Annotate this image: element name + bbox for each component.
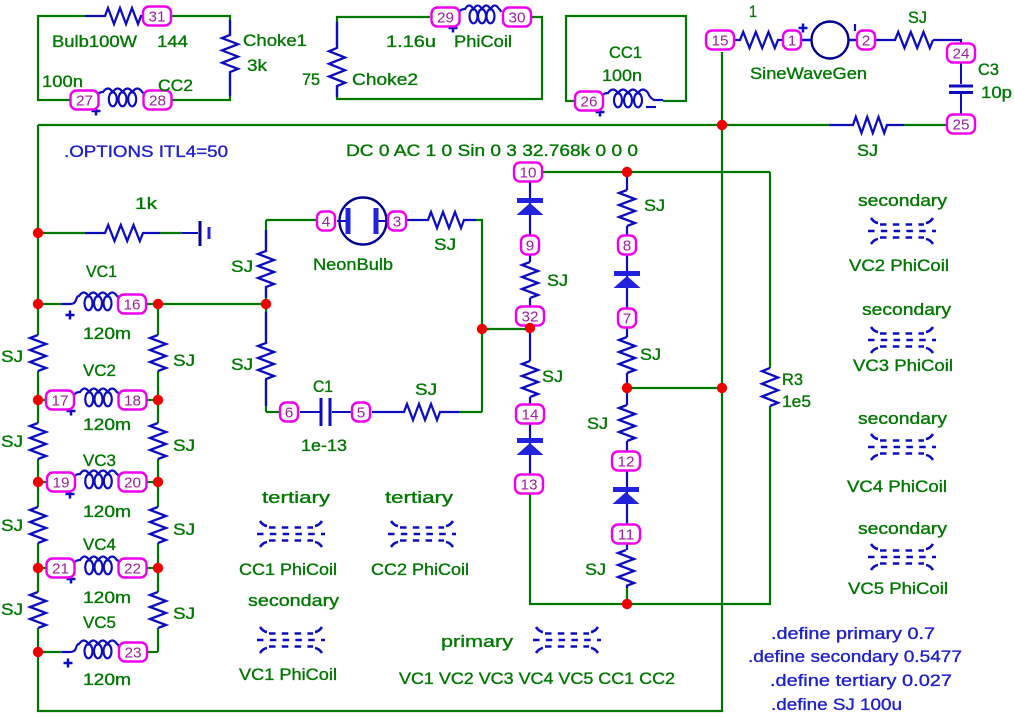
wire loop3 rectangle [566,16,686,101]
svg-text:22: 22 [124,561,141,578]
svg-text:SJ: SJ [1,600,23,619]
junction dot (38,233) [33,228,43,238]
minus sign of CC1 [646,106,656,108]
resistor SJ left rail 1 [29,335,47,371]
node 32 [516,307,544,326]
plus of CC2 [92,107,101,116]
node 25 [947,115,975,134]
wire mid junction to right rail [627,387,722,389]
svg-text:13: 13 [521,477,538,494]
plus mark of SineWaveGen [799,24,808,33]
resistor SJ mid rail 4 [149,592,167,628]
sine source SineWaveGen circle [801,22,857,59]
resistor SJ (node5 bottom) [404,403,440,421]
plus of VC3 [66,490,75,499]
node 22 [119,559,147,578]
resistor SJ left rail 4 [29,592,47,628]
svg-text:26: 26 [581,94,598,111]
svg-text:4: 4 [322,214,331,231]
wire neon loop top-left [266,219,317,221]
capacitor C3 10p [949,62,973,115]
wire node20 stub [146,481,158,483]
wire loop1 top-right and right edge [171,16,230,100]
svg-text:VC3: VC3 [83,451,116,470]
svg-text:100n: 100n [42,72,83,91]
svg-text:1e-13: 1e-13 [301,436,347,455]
svg-text:tertiary: tertiary [385,488,454,507]
junction dot (482,329) [477,324,487,334]
resistor SJ (node3 top) [428,211,464,229]
resistor SJ neon left upper [257,251,275,287]
svg-text:SJ: SJ [231,257,253,276]
svg-text:SJ: SJ [173,436,195,455]
resistor SJ left rail 3 [29,507,47,543]
svg-text:12: 12 [618,454,635,471]
wire node18 stub [146,399,158,401]
node 27 [71,91,99,110]
wire outer loop top edge [38,124,722,126]
svg-text:SJ: SJ [547,271,568,290]
svg-text:3: 3 [393,214,402,231]
resistor SJ mid rail 2 [149,423,167,459]
svg-text:1k: 1k [135,194,158,213]
junction dot (158,482) [153,477,163,487]
svg-text:.define SJ 100u: .define SJ 100u [771,695,902,714]
svg-text:10p: 10p [981,83,1012,102]
junction dot (722,388) [717,383,727,393]
svg-text:1e5: 1e5 [782,392,811,411]
inductor CC1 100n [602,90,663,108]
svg-text:DC 0 AC 1 0 Sin 0 3 32.768k 0: DC 0 AC 1 0 Sin 0 3 32.768k 0 0 0 [346,141,638,160]
svg-text:SJ: SJ [231,355,253,374]
node 31 [143,7,171,26]
svg-text:28: 28 [149,93,166,110]
wire neon loop bottom-left [266,411,280,413]
node 12 [612,452,640,471]
svg-text:120m: 120m [83,502,131,521]
node 2 [857,31,875,50]
svg-text:SJ: SJ [542,367,563,386]
svg-text:VC2 PhiCoil: VC2 PhiCoil [849,256,949,275]
neon bulb NeonBulb [337,198,387,245]
capacitor C1 1e-13 [300,398,351,426]
svg-text:.define secondary 0.5477: .define secondary 0.5477 [748,647,962,666]
coupling K secondary VC2 PhiCoil [868,218,936,244]
junction dot (38,568) [33,563,43,573]
node 6 [280,403,298,422]
node 7 [618,309,636,328]
junction dot (38,400) [33,395,43,405]
plus of VC4 [67,575,76,584]
svg-text:SJ: SJ [173,604,195,623]
wire top bus segment to SJ resistor [722,124,830,126]
wire loop2 rectangle [337,17,542,99]
wire VC5 entry [38,651,62,653]
junction dot (158,568) [153,563,163,573]
svg-text:120m: 120m [83,324,131,343]
resistor SJ (junction-12) [618,405,636,441]
coupling K secondary VC4 PhiCoil [868,434,936,460]
resistor SJ neon left lower [257,343,275,379]
svg-text:PhiCoil: PhiCoil [454,32,512,51]
svg-text:SJ: SJ [587,414,608,433]
coupling K secondary VC5 PhiCoil [868,544,936,570]
plus of VC2 [67,407,76,416]
svg-text:100n: 100n [602,66,642,85]
node 15 [706,31,734,50]
svg-text:17: 17 [52,393,69,410]
resistor SJ (7-junction) [618,337,636,373]
svg-text:NeonBulb: NeonBulb [313,255,393,274]
resistor SJ (11-bottom) [617,550,635,586]
node 9 [521,236,539,255]
resistor SJ (node25 bus) [853,116,887,134]
svg-text:SJ: SJ [1,432,23,451]
svg-text:CC1 PhiCoil: CC1 PhiCoil [239,560,337,579]
svg-text:primary: primary [441,632,514,651]
svg-text:SJ: SJ [173,520,195,539]
svg-text:SJ: SJ [434,235,456,254]
resistor SJ (9-32) [521,262,539,298]
svg-text:2: 2 [862,33,871,50]
wire node23 to mid rail [146,651,158,653]
resistor 1k [105,224,143,242]
node 29 [432,8,460,27]
svg-text:1.16u: 1.16u [386,32,436,51]
wire neon loop top-right corner and right rail [476,220,482,412]
node 18 [119,391,147,410]
coupling K secondary VC3 PhiCoil [868,327,936,353]
wire 1k branch from left rail [38,232,85,234]
node 19 [47,473,75,492]
svg-text:120m: 120m [83,588,131,607]
svg-text:.define primary 0.7: .define primary 0.7 [771,624,935,643]
plus of VC1 [66,311,75,320]
node 13 [515,475,543,494]
svg-text:Bulb100W: Bulb100W [52,32,137,51]
node 30 [503,8,531,27]
junction dot (627,388) [622,383,632,393]
wire bottom collector bus [530,172,770,604]
junction dot (627,604) [622,599,632,609]
svg-text:SJ: SJ [908,8,927,27]
resistor SJ (top mid chain) [618,190,636,226]
node 8 [618,236,636,255]
wire node17 stub [38,399,47,401]
resistor SJ mid rail 1 [149,335,167,371]
wire node19 stub [38,481,47,483]
svg-text:CC1: CC1 [609,43,642,62]
svg-text:7: 7 [623,311,632,328]
diode node14-node13 [517,438,544,455]
svg-text:VC4: VC4 [83,535,116,554]
svg-text:CC2 PhiCoil: CC2 PhiCoil [371,560,469,579]
diode node8-node7 [614,271,641,288]
svg-text:1: 1 [749,2,757,21]
plus of PhiCoil [449,24,458,33]
resistor SJ (node2-node24) [895,31,933,49]
junction dot (158,400) [153,395,163,405]
diode node12-node11 [613,487,640,504]
svg-text:VC4 PhiCoil: VC4 PhiCoil [847,477,947,496]
resistor Choke2 75 [328,48,346,86]
svg-text:15: 15 [712,33,729,50]
svg-text:19: 19 [53,475,70,492]
node 4 [317,212,335,231]
svg-text:11: 11 [618,527,635,544]
svg-text:secondary: secondary [858,409,948,428]
resistor R3 1e5 [761,368,779,406]
inductor CC2 100n [97,89,144,107]
svg-text:tertiary: tertiary [262,488,331,507]
junction dot (38,304) [33,299,43,309]
svg-text:1: 1 [788,33,797,50]
junction dot (158,304) [153,299,163,309]
svg-text:SJ: SJ [173,351,195,370]
svg-text:VC1 PhiCoil: VC1 PhiCoil [239,665,337,684]
svg-text:21: 21 [52,561,69,578]
junction dot (530,328) [525,323,535,333]
inductor PhiCoil 1.16u [459,6,501,24]
svg-text:120m: 120m [83,670,131,689]
node 16 [118,295,146,314]
svg-text:Choke2: Choke2 [352,70,418,89]
svg-text:Choke1: Choke1 [243,31,307,50]
wire neon loop left rail [265,220,267,412]
svg-text:10: 10 [520,165,537,182]
svg-text:SineWaveGen: SineWaveGen [750,64,867,83]
svg-text:VC3 PhiCoil: VC3 PhiCoil [853,356,953,375]
node 20 [119,473,147,492]
svg-text:C1: C1 [313,377,333,396]
svg-text:SJ: SJ [857,141,878,160]
plus of CC1 [596,108,605,117]
wire outer loop left/bottom/right (main ground loop) [38,52,722,711]
node 23 [119,643,147,662]
resistor 1 (node15-node1) [740,31,778,49]
node 10 [514,163,542,182]
junction dot (627,172) [622,167,632,177]
node 21 [47,559,75,578]
wire node10 bus [542,171,770,173]
wire VC1 row to NeonBulb rail [146,303,266,305]
svg-text:SJ: SJ [585,560,606,579]
junction dot (38,652) [33,647,43,657]
svg-text:SJ: SJ [644,196,665,215]
svg-text:31: 31 [149,9,166,26]
svg-text:secondary: secondary [858,191,948,210]
svg-text:VC5: VC5 [83,613,116,632]
svg-text:secondary: secondary [858,519,948,538]
svg-text:SJ: SJ [415,380,437,399]
inductor VC1 120m [62,293,119,311]
wire mid rail [157,304,159,652]
node 1 [783,31,801,50]
svg-text:8: 8 [623,238,632,255]
svg-text:25: 25 [953,117,970,134]
node 3 [388,212,406,231]
resistor SJ (32-14) [521,361,539,397]
battery symbol [182,221,209,246]
svg-text:6: 6 [285,405,294,422]
resistor SJ left rail 2 [29,423,47,459]
svg-text:14: 14 [522,407,539,424]
svg-text:9: 9 [526,238,535,255]
wire node21 stub [38,567,47,569]
svg-text:75: 75 [302,70,320,89]
mid chain spine [626,172,628,588]
wire SJ to node 25 [904,124,947,126]
svg-text:VC1 VC2 VC3 VC4 VC5 CC1 CC2: VC1 VC2 VC3 VC4 VC5 CC1 CC2 [399,669,675,688]
svg-text:SJ: SJ [640,345,661,364]
node 26 [575,92,603,111]
svg-text:secondary: secondary [862,300,952,319]
svg-text:SJ: SJ [1,516,23,535]
coupling K tertiary CC1 PhiCoil [257,521,325,547]
svg-text:CC2: CC2 [158,76,193,95]
plus of VC5 [64,659,73,668]
node 28 [144,91,172,110]
resistor Choke1 3k [221,35,239,72]
node 11 [612,525,640,544]
left chain spine [529,182,531,474]
svg-text:VC2: VC2 [83,361,116,380]
svg-text:24: 24 [953,46,970,63]
wire loop1 top-left [38,16,85,100]
node 17 [46,391,74,410]
svg-text:18: 18 [124,393,141,410]
wire 1k resistor to battery [160,232,182,234]
lead from SJ to node 24 [933,40,961,44]
wire node22 stub [146,567,158,569]
resistor Bulb100W (144) [105,7,141,25]
junction dot (266,304) [261,299,271,309]
svg-text:23: 23 [125,645,142,662]
junction dot (38,482) [33,477,43,487]
coupling K primary [533,627,601,653]
junction dot (722,125) [717,120,727,130]
svg-text:.define tertiary 0.027: .define tertiary 0.027 [770,671,952,690]
svg-text:16: 16 [124,297,141,314]
svg-text:C3: C3 [978,60,999,79]
coupling K tertiary CC2 PhiCoil [388,521,456,547]
wire mid chain bottom stub [626,586,628,604]
wire node5 to SJ [459,411,482,413]
svg-text:VC5 PhiCoil: VC5 PhiCoil [848,579,948,598]
inductor VC3 120m [74,471,119,489]
wire node32 junction link [482,328,530,330]
svg-text:R3: R3 [782,370,803,389]
svg-text:27: 27 [76,93,93,110]
inductor VC4 120m [74,557,119,575]
node 14 [516,405,544,424]
inductor VC5 120m [62,641,119,659]
svg-text:VC1: VC1 [86,262,117,281]
node 24 [947,44,975,63]
svg-text:SJ: SJ [1,347,23,366]
svg-text:3k: 3k [247,56,268,75]
resistor SJ mid rail 3 [149,507,167,543]
inductor VC2 120m [74,389,119,407]
svg-text:.OPTIONS ITL4=50: .OPTIONS ITL4=50 [64,142,228,161]
svg-text:144: 144 [157,32,188,51]
svg-text:20: 20 [124,475,141,492]
svg-text:30: 30 [509,10,526,27]
minus tick of SineWaveGen [854,24,856,31]
svg-text:29: 29 [437,10,454,27]
node 5 [352,403,370,422]
diode node10-node9 [517,198,544,215]
svg-text:secondary: secondary [248,591,340,610]
wire VC1 entry [38,303,62,305]
coupling K secondary VC1 PhiCoil [257,627,325,653]
svg-text:5: 5 [357,405,366,422]
svg-text:120m: 120m [83,415,131,434]
